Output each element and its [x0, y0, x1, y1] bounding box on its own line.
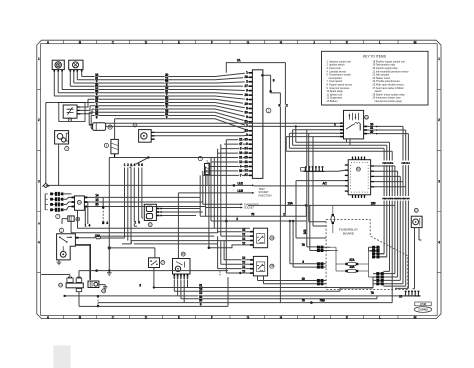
- suppressor capacitor (item 12): [89, 123, 105, 131]
- svg-text:30: 30: [244, 111, 248, 115]
- svg-text:56: 56: [239, 169, 243, 173]
- thick wire: ignition switch to starter motor: [75, 245, 90, 280]
- svg-text:15: 15: [95, 198, 99, 202]
- fuse/relay board dashed outline: [326, 220, 408, 290]
- svg-text:L: L: [379, 316, 381, 320]
- svg-text:12: 12: [242, 265, 246, 269]
- svg-text:26: 26: [244, 75, 248, 79]
- fuel pump (item 3): [55, 131, 69, 144]
- svg-text:LU2: LU2: [237, 181, 243, 185]
- svg-text:230: 230: [371, 201, 376, 205]
- throttle potentiometer (item 24): [75, 196, 85, 210]
- junction on relay feed: [239, 272, 241, 274]
- wires: risers from relay coil lines to fuse board: [307, 130, 326, 247]
- relay (item 20): [253, 228, 267, 248]
- svg-text:31: 31: [239, 155, 243, 159]
- dashed stub bottom middle: [219, 271, 221, 276]
- svg-text:M: M: [38, 222, 40, 226]
- wires: right connector stacks: [340, 247, 387, 288]
- svg-text:J: J: [313, 40, 315, 44]
- fuse 2 in board: [336, 265, 369, 272]
- svg-text:14: 14: [95, 193, 99, 197]
- svg-text:27A: 27A: [349, 258, 355, 262]
- svg-text:28: 28: [244, 93, 248, 97]
- wire: riser bus at 221 to right: [211, 220, 306, 222]
- map sensor (item 21): [68, 216, 74, 221]
- svg-text:13 Battery: 13 Battery: [327, 100, 339, 103]
- idle actuator (item 22, right): [411, 216, 422, 227]
- svg-text:F: F: [211, 316, 213, 320]
- wires: ECU pins 15-24 to centre risers: [109, 140, 249, 176]
- wires: into left board connectors: [310, 205, 326, 283]
- svg-text:3: 3: [38, 179, 40, 183]
- wires: battery terminals: [41, 271, 228, 307]
- svg-text:12: 12: [242, 237, 246, 241]
- drawing frame border: [37, 40, 441, 318]
- wires: component leads down to bundle: [46, 72, 115, 183]
- svg-text:internal connection page): internal connection page): [373, 100, 403, 103]
- wire: 205.4 bus to fuse board: [200, 205, 306, 216]
- svg-text:47: 47: [239, 142, 243, 146]
- svg-text:2: 2: [38, 118, 40, 122]
- comb connector bottom right (instrument cluster item 29): [404, 291, 421, 296]
- svg-text:10A: 10A: [349, 265, 355, 269]
- wire: ignition switch accessory feed: [75, 237, 95, 239]
- svg-text:12: 12: [242, 261, 246, 265]
- svg-text:J: J: [313, 316, 315, 320]
- wire: isolator relay coil feed from bus: [177, 193, 179, 259]
- test socket text: [259, 188, 272, 197]
- inertia switch (item 27): [149, 258, 160, 268]
- svg-text:76: 76: [370, 291, 374, 295]
- board edge connectors: [317, 246, 323, 285]
- injection control unit connector (item 1): [252, 70, 263, 179]
- svg-text:KEY TO ITEMS: KEY TO ITEMS: [363, 54, 387, 58]
- right harness connectors: [373, 246, 384, 284]
- svg-text:4: 4: [38, 241, 40, 245]
- ground: ignition switch: [57, 260, 62, 265]
- injector 2: [51, 198, 63, 201]
- injector 3: [51, 203, 63, 206]
- svg-text:30: 30: [370, 130, 374, 134]
- wire labels on bundle: [94, 73, 169, 119]
- svg-text:12: 12: [242, 233, 246, 237]
- svg-text:G: G: [247, 316, 250, 320]
- spark plug riser bundle: [100, 158, 148, 244]
- wire: injector bank leads: [45, 194, 71, 210]
- injector 1: [51, 192, 63, 195]
- svg-text:1: 1: [38, 57, 40, 61]
- bottom bus wires: [66, 277, 415, 306]
- svg-text:4748: 4748: [420, 302, 427, 306]
- temperature sender (item 5): [139, 130, 155, 143]
- wires: relay 20 coil feeds to left: [95, 158, 224, 271]
- publisher logo: [414, 302, 432, 312]
- ECU pin number labels: [243, 71, 248, 178]
- relay (item 18): [253, 256, 267, 276]
- wires: pot to risers: [87, 197, 205, 206]
- ballast resistor: [111, 139, 118, 157]
- wires inside board: [326, 246, 377, 278]
- key to items legend box: [322, 51, 429, 105]
- svg-text:29: 29: [244, 102, 248, 106]
- tachometric relay (item 19): [344, 110, 364, 138]
- svg-text:M: M: [414, 316, 417, 320]
- ground: lambda harness: [42, 183, 49, 188]
- svg-text:12: 12: [242, 256, 246, 260]
- test socket injection wires: [46, 185, 252, 193]
- starter motor isolator relay (item 28): [173, 259, 191, 275]
- svg-text:2: 2: [438, 118, 440, 122]
- distributor (item 6): [69, 60, 83, 72]
- diagnostic socket: [203, 204, 241, 207]
- svg-text:12: 12: [242, 241, 246, 245]
- wires: risers to relay pins: [209, 221, 250, 273]
- svg-text:1: 1: [438, 57, 440, 61]
- fusible link top of board: [331, 205, 334, 233]
- comb connector (instrument cluster feed): [301, 166, 325, 171]
- fuel injector (item 7): [205, 160, 210, 185]
- svg-text:4: 4: [438, 241, 440, 245]
- svg-text:G: G: [247, 40, 250, 44]
- svg-text:29: 29: [399, 295, 403, 299]
- idle speed actuator (item 22): [144, 204, 156, 220]
- svg-text:22: 22: [239, 138, 243, 142]
- fuse 1 in board: [336, 258, 369, 265]
- wire bundle: ignition harness to ECU: [46, 73, 249, 131]
- svg-text:76: 76: [301, 243, 305, 247]
- svg-text:LU6: LU6: [237, 189, 243, 193]
- grey smudge bottom-left: [54, 346, 71, 368]
- relay bottom leads: [258, 276, 318, 284]
- wire: actuator down to cluster comb: [413, 228, 422, 289]
- svg-text:L: L: [379, 40, 381, 44]
- svg-text:CARNO: CARNO: [418, 308, 428, 312]
- svg-text:12: 12: [242, 269, 246, 273]
- svg-text:75: 75: [251, 212, 255, 216]
- svg-text:103: 103: [303, 229, 307, 234]
- wires: relay pin U-loops and cross runs: [286, 126, 392, 302]
- positive supply control unit (item 18 block): [348, 160, 370, 195]
- frame grid letters and numbers: [38, 40, 440, 319]
- starter motor (item 23): [88, 281, 99, 288]
- svg-text:F: F: [211, 40, 213, 44]
- ECU right-side feed wires: [262, 75, 280, 302]
- svg-text:19: 19: [239, 151, 243, 155]
- injector 4: [51, 208, 63, 211]
- svg-text:27: 27: [244, 84, 248, 88]
- wires: control unit block left pins: [254, 170, 345, 238]
- svg-text:M: M: [414, 40, 417, 44]
- svg-text:76: 76: [301, 299, 305, 303]
- wires: isolator relay pins to bottom buses: [174, 280, 187, 303]
- wire: fuel pump to ground bus: [58, 144, 60, 185]
- dashed link wire left: [102, 208, 104, 223]
- svg-text:INJECTION: INJECTION: [259, 194, 272, 197]
- svg-text:BOARD: BOARD: [343, 232, 355, 236]
- lambda sensor (item 4): [59, 103, 85, 122]
- relay bottom stubs: [347, 139, 351, 145]
- svg-text:35: 35: [95, 203, 99, 207]
- wires: idle actuator pins right: [162, 209, 203, 216]
- dashed battery lead: [97, 297, 99, 306]
- risers: centre of diagram: [200, 140, 226, 248]
- ignition switch (item 2): [57, 234, 76, 260]
- grounds near battery: [103, 271, 112, 290]
- svg-text:12: 12: [239, 160, 243, 164]
- risers: distribution to fuse board (left of legend): [290, 221, 318, 267]
- wires: temperature sender to ECU pins: [106, 123, 342, 136]
- svg-text:3: 3: [438, 179, 440, 183]
- wires: tacho relay right pins to right risers: [367, 126, 408, 288]
- battery (item 13): [66, 277, 83, 292]
- svg-text:12: 12: [242, 228, 246, 232]
- wires: control unit block right pins to risers: [374, 166, 406, 280]
- svg-text:SOCKET: SOCKET: [244, 207, 255, 210]
- wire TA to right riser: [226, 63, 285, 217]
- wires: pot area down to relay feed lines: [71, 202, 218, 232]
- labels on right riser bundle: [382, 161, 410, 201]
- frame tick marks: [37, 40, 441, 318]
- ignition coil (item 11): [52, 60, 64, 72]
